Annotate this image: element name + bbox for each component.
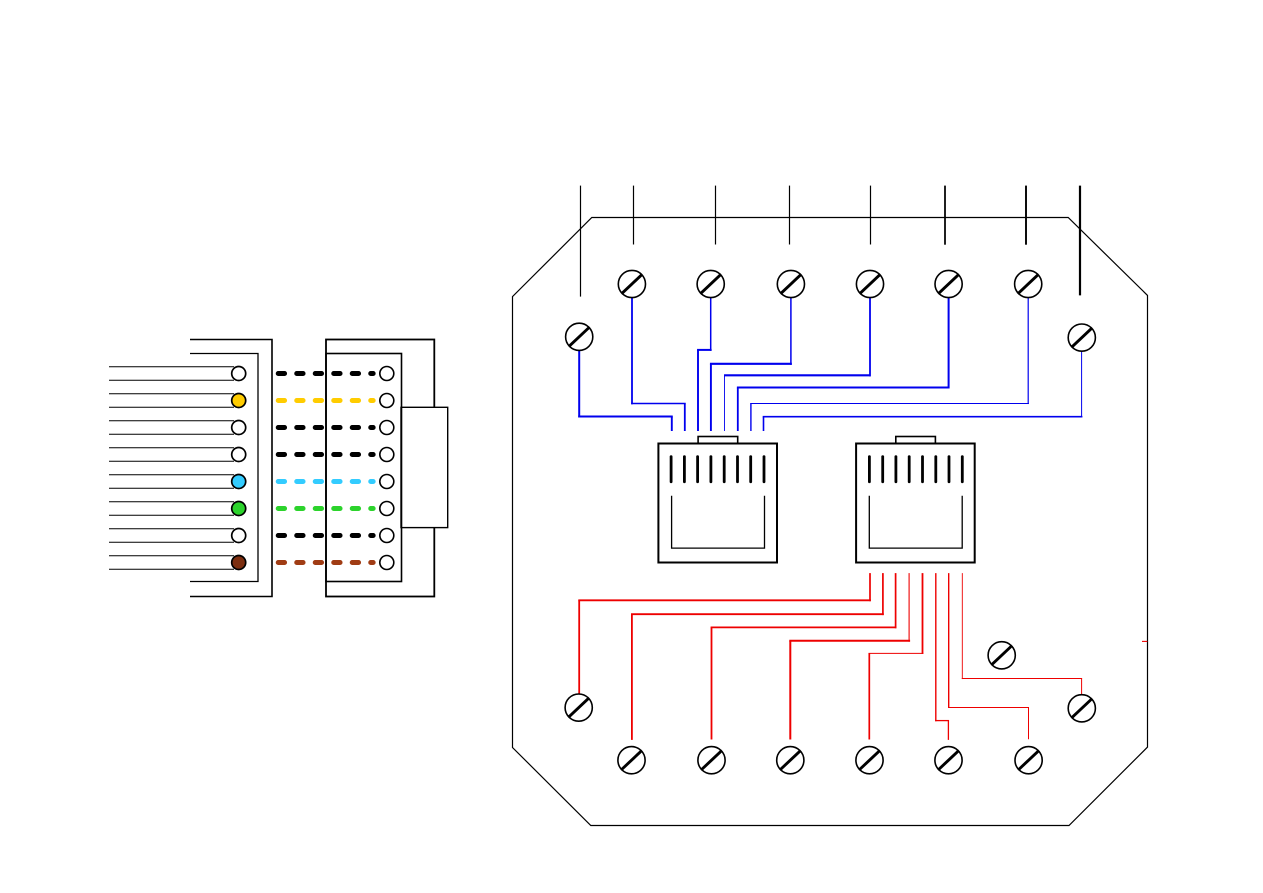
screw terminal bottom row 5 (935, 747, 962, 774)
plug contact 4 circle (380, 448, 394, 462)
wire 1 lead lines (109, 367, 234, 381)
RJ45 jack J2 (right) locking-tab notch (896, 437, 936, 444)
wire 2 conductor tip circle (232, 394, 246, 408)
wire 1 conductor tip circle (232, 367, 246, 381)
screw terminal top row 5 (935, 270, 962, 297)
blue wire 4: top screw 3 to jack J1 pin 4 (710, 298, 792, 431)
plug contact 6 circle (380, 502, 394, 516)
dashed conductor link 6 (278, 506, 373, 511)
incoming cable 1 (580, 186, 582, 297)
screw terminal top row 2 (697, 270, 724, 297)
red wire 7: jack J2 pin 7 to bottom screw 6 (948, 573, 1029, 739)
screw terminal lower-right side (1068, 695, 1095, 722)
RJ45 jack J1 (left) body (658, 444, 777, 563)
RJ45 jack J2 (right) opening (869, 496, 962, 548)
RJ45 plug body inner rectangle (326, 354, 402, 582)
wire 2 lead lines (109, 394, 234, 408)
wire 6 conductor tip circle (232, 502, 246, 516)
dashed conductor link 2 (278, 398, 373, 403)
dashed conductor link 3 (278, 425, 373, 430)
wire 4 lead lines (109, 448, 234, 462)
dashed conductor link 5 (278, 479, 373, 484)
screw terminal top row 4 (856, 270, 883, 297)
red wire 6: jack J2 pin 6 to bottom screw 5 (935, 573, 949, 740)
screw terminal top row 6 (1015, 270, 1042, 297)
red wire 8: jack J2 pin 8 to lower-right side screw (962, 573, 1082, 694)
wire 4 conductor tip circle (232, 448, 246, 462)
incoming cable 2 (633, 186, 635, 245)
blue wire 1: left middle screw to jack J1 pin 1 (578, 350, 673, 431)
screw terminal bottom row 1 (618, 747, 645, 774)
blue wire 7: top screw 6 to jack J1 pin 7 (750, 298, 1029, 431)
dashed conductor link 4 (278, 452, 373, 457)
plug contact 7 circle (380, 529, 394, 543)
RJ45 jack J1 (left) locking-tab notch (698, 437, 738, 444)
wire 3 lead lines (109, 421, 234, 435)
screw terminal top row 3 (777, 270, 804, 297)
blue wire 5: top screw 4 to jack J1 pin 5 (724, 298, 870, 431)
incoming cable 8 (1079, 186, 1081, 296)
wall plate octagonal outline (513, 218, 1148, 826)
blue wire 2: top screw 1 to jack J1 pin 2 (631, 298, 686, 431)
incoming cable 4 (789, 186, 791, 245)
red wire 4: jack J2 pin 4 to bottom screw 3 (789, 573, 910, 739)
RJ45 jack J1 (left) opening (672, 496, 765, 548)
plug contact 5 circle (380, 475, 394, 489)
blue wire 6: top screw 5 to jack J1 pin 6 (737, 298, 950, 431)
plug contact 3 circle (380, 421, 394, 435)
wire 3 conductor tip circle (232, 421, 246, 435)
incoming cable 6 (944, 186, 946, 245)
wire 7 conductor tip circle (232, 529, 246, 543)
screw terminal spare (unwired) (988, 642, 1015, 669)
red wire 3: jack J2 pin 3 to bottom screw 2 (711, 573, 897, 739)
plug contact 1 circle (380, 367, 394, 381)
red wire stub at right plate edge (1142, 640, 1147, 642)
wire 7 lead lines (109, 529, 234, 543)
plug housing inner bracket (190, 354, 258, 582)
wire 8 conductor tip circle (232, 556, 246, 570)
blue wire 8: right middle screw to jack J1 pin 8 (763, 352, 1083, 432)
RJ45 plug locking tab (401, 407, 448, 527)
screw terminal bottom row 3 (777, 747, 804, 774)
RJ45 plug body outer rectangle (326, 340, 434, 597)
plug contact 2 circle (380, 394, 394, 408)
RJ45 jack J2 (right) body (856, 444, 975, 563)
blue wire 3: top screw 2 to jack J1 pin 3 (697, 298, 712, 431)
screw terminal upper-left side (566, 323, 593, 350)
wire 8 lead lines (109, 556, 234, 570)
wire 5 lead lines (109, 475, 234, 489)
incoming cable 7 (1025, 186, 1027, 245)
screw terminal upper-right side (1068, 324, 1095, 351)
red wire 2: jack J2 pin 2 to bottom screw 1 (631, 573, 884, 740)
plug housing outer bracket (190, 340, 272, 597)
wire 5 conductor tip circle (232, 475, 246, 489)
red wire 1: jack J2 pin 1 to lower-left side screw (578, 573, 871, 694)
screw terminal bottom row 4 (856, 747, 883, 774)
dashed conductor link 8 (278, 560, 373, 565)
plug contact 8 circle (380, 556, 394, 570)
RJ45 jack J2 (right) contact pins (869, 457, 962, 482)
RJ45 jack J1 (left) contact pins (671, 457, 764, 482)
wire 6 lead lines (109, 502, 234, 516)
incoming cable 3 (715, 186, 717, 245)
screw terminal bottom row 2 (698, 747, 725, 774)
screw terminal top row 1 (618, 270, 645, 297)
dashed conductor link 7 (278, 533, 373, 538)
screw terminal bottom row 6 (1015, 747, 1042, 774)
red wire 5: jack J2 pin 5 to bottom screw 4 (868, 573, 923, 739)
incoming cable 5 (870, 186, 872, 245)
dashed conductor link 1 (278, 371, 373, 376)
screw terminal lower-left side (565, 694, 592, 721)
